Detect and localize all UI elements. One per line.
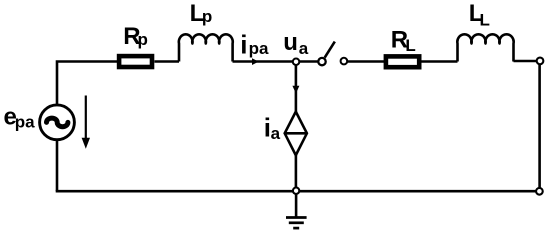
wire Rp to Lp: [155, 60, 180, 63]
current direction arrow beside source: [82, 96, 90, 149]
voltage source e_pa circle: [40, 105, 75, 140]
svg-text:p: p: [138, 30, 148, 49]
svg-text:L: L: [405, 36, 415, 55]
label LL: [469, 0, 490, 29]
svg-text:pa: pa: [249, 39, 269, 58]
bottom-right terminal circle: [536, 188, 543, 195]
ground stub: [295, 194, 298, 218]
switch blade: [325, 42, 335, 58]
svg-text:i: i: [240, 29, 247, 59]
resistor RL: [386, 56, 419, 67]
ground bar 2: [289, 221, 304, 224]
svg-text:L: L: [480, 11, 490, 30]
current source i_a diamond: [285, 112, 307, 156]
voltage source sine wave: [47, 118, 68, 127]
svg-text:pa: pa: [15, 112, 35, 131]
label ua: [283, 29, 309, 58]
bottom node terminal circle: [293, 188, 299, 194]
svg-text:a: a: [299, 39, 309, 58]
svg-text:u: u: [283, 29, 298, 56]
wire bottom rail: [56, 190, 540, 193]
node ua terminal circle: [293, 58, 300, 64]
label e_pa: [4, 103, 36, 131]
arrow on ua branch: [292, 86, 299, 94]
label i_pa: [240, 29, 269, 59]
svg-text:a: a: [271, 124, 281, 143]
switch left contact circle: [318, 58, 325, 65]
ground bar 1: [286, 216, 307, 219]
wire RL to LL: [421, 60, 457, 63]
current source middle bar: [285, 132, 307, 135]
ground bar 3: [293, 227, 299, 230]
top-right terminal circle: [537, 58, 544, 65]
label Lp: [190, 0, 213, 27]
wire LL to top-right terminal: [514, 60, 541, 63]
wire top-left segment: [57, 62, 118, 105]
svg-text:p: p: [202, 7, 212, 26]
wire right vertical: [538, 61, 541, 191]
resistor Rp: [119, 56, 152, 67]
wire Lp to node ua: [233, 60, 297, 63]
label i_a: [264, 112, 281, 143]
wire ua branch vertical: [295, 62, 298, 191]
label RL: [391, 26, 416, 55]
wire switch to RL: [344, 60, 384, 63]
inductor Lp: [179, 34, 233, 61]
wire source bottom to ground rail: [56, 140, 59, 191]
switch right contact circle: [341, 58, 348, 65]
arrow i_pa on wire: [252, 58, 259, 65]
wire node ua to switch: [296, 60, 322, 63]
label Rp: [123, 23, 148, 50]
inductor LL: [457, 34, 513, 61]
